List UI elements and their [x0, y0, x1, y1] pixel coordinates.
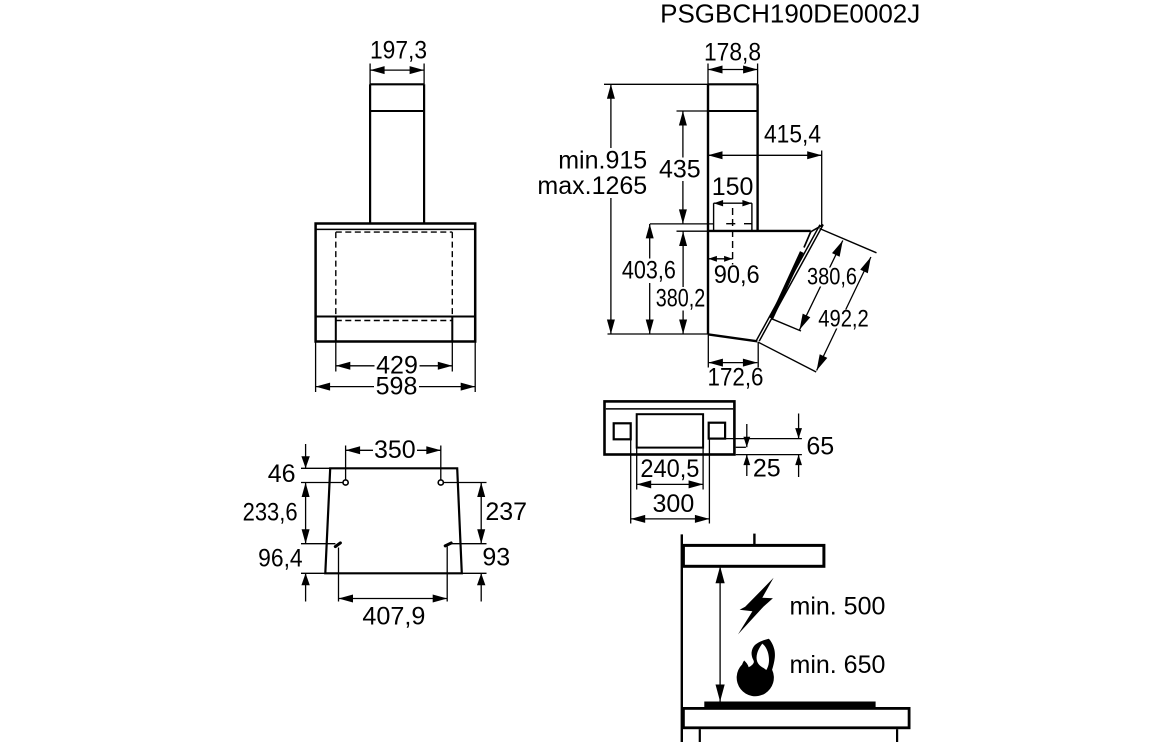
svg-text:403,6: 403,6 — [622, 257, 676, 285]
svg-text:90,6: 90,6 — [714, 261, 760, 289]
svg-text:380,6: 380,6 — [807, 264, 857, 291]
svg-text:380,2: 380,2 — [656, 285, 706, 313]
svg-text:172,6: 172,6 — [708, 364, 764, 392]
svg-text:407,9: 407,9 — [362, 603, 425, 631]
svg-text:415,4: 415,4 — [764, 121, 821, 149]
svg-text:min. 650: min. 650 — [790, 651, 886, 679]
svg-text:max.1265: max.1265 — [537, 172, 647, 200]
svg-text:46: 46 — [268, 460, 296, 488]
svg-text:min. 500: min. 500 — [790, 593, 886, 621]
svg-text:150: 150 — [712, 173, 754, 201]
svg-text:178,8: 178,8 — [704, 38, 761, 66]
svg-text:93: 93 — [482, 543, 510, 571]
svg-text:197,3: 197,3 — [370, 36, 427, 64]
svg-text:240,5: 240,5 — [640, 455, 699, 483]
svg-text:350: 350 — [374, 436, 416, 464]
svg-text:233,6: 233,6 — [243, 498, 298, 526]
svg-text:65: 65 — [806, 432, 834, 460]
svg-text:492,2: 492,2 — [818, 306, 869, 333]
svg-text:435: 435 — [659, 155, 701, 183]
svg-text:237: 237 — [485, 498, 527, 526]
svg-text:300: 300 — [653, 490, 695, 518]
svg-text:25: 25 — [753, 454, 781, 482]
svg-text:598: 598 — [376, 373, 418, 401]
svg-text:PSGBCH190DE0002J: PSGBCH190DE0002J — [660, 0, 920, 29]
svg-text:min.915: min.915 — [558, 147, 647, 175]
svg-text:96,4: 96,4 — [258, 545, 303, 573]
